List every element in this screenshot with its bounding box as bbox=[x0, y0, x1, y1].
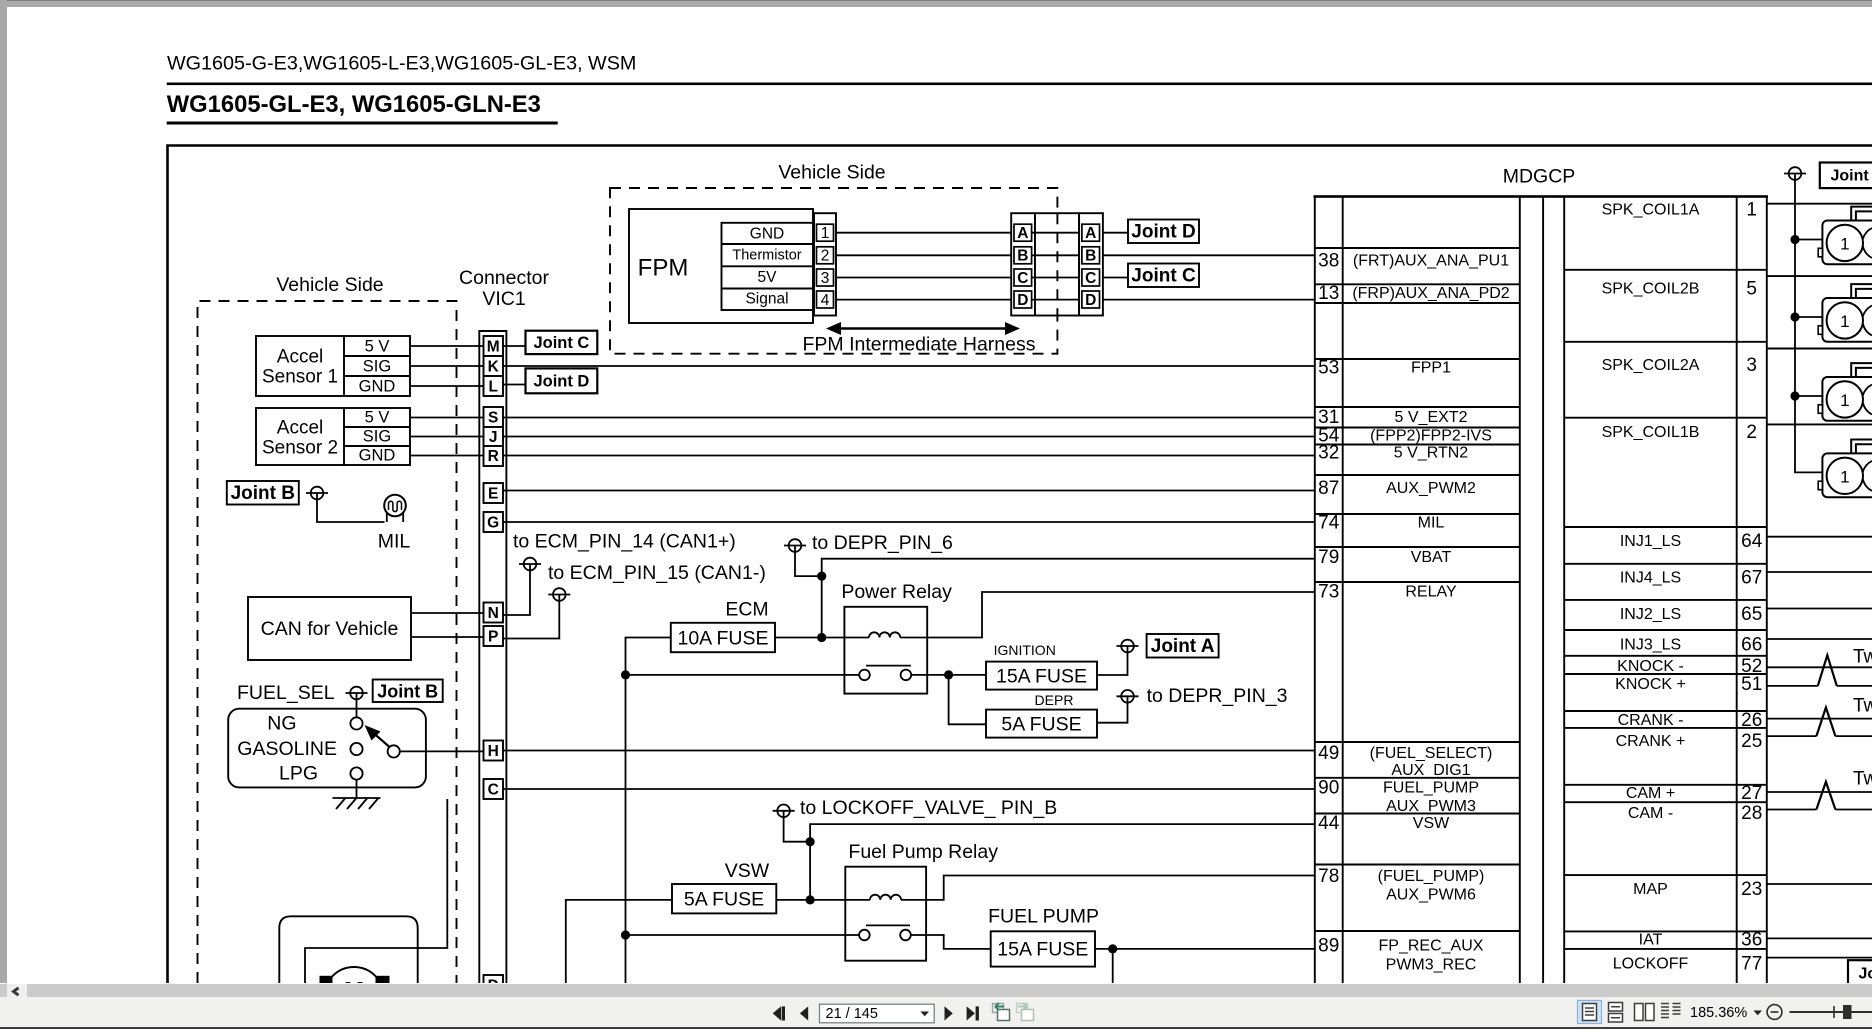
svg-text:Joint B: Joint B bbox=[231, 483, 295, 504]
coil signal names bbox=[1602, 202, 1700, 973]
svg-text:185.36%: 185.36% bbox=[1690, 1005, 1747, 1021]
svg-text:66: 66 bbox=[1741, 635, 1762, 656]
svg-text:LOCKOFF: LOCKOFF bbox=[1613, 956, 1689, 973]
svg-text:SPK_COIL1A: SPK_COIL1A bbox=[1602, 202, 1700, 219]
svg-text:FUEL_PUMP: FUEL_PUMP bbox=[1383, 780, 1479, 797]
wire split down to 5A fuse bbox=[949, 675, 986, 724]
wire to coil connector 1 bbox=[1795, 239, 1822, 241]
svg-text:15A FUSE: 15A FUSE bbox=[996, 666, 1087, 688]
svg-text:to DEPR_PIN_3: to DEPR_PIN_3 bbox=[1147, 685, 1288, 707]
svg-text:B: B bbox=[1085, 248, 1096, 265]
svg-text:Signal: Signal bbox=[745, 291, 788, 308]
VIC1 pin K bbox=[484, 356, 504, 376]
junction feed/fp relay common bbox=[621, 930, 630, 939]
wire LOCKOFF pin 77 bbox=[1767, 957, 1872, 959]
wire relay common from feed bbox=[626, 674, 845, 676]
svg-text:4: 4 bbox=[821, 292, 830, 309]
harness connector pin C (right) bbox=[1082, 269, 1100, 287]
wire FPM pin2 to connector B bbox=[836, 254, 1011, 256]
wire 15A fuse to Joint A bbox=[1097, 646, 1128, 675]
junction feed/common bbox=[621, 670, 630, 679]
svg-text:Vehicle Side: Vehicle Side bbox=[778, 162, 885, 184]
wire pin N to CAN1+ joint bbox=[503, 564, 530, 615]
FPM pin 1 bbox=[817, 224, 834, 242]
svg-text:Twisted: Twisted bbox=[1853, 769, 1872, 790]
fuse 5A VSW bbox=[672, 884, 776, 913]
svg-text:Joint D: Joint D bbox=[1131, 222, 1195, 243]
svg-text:Joint D: Joint D bbox=[533, 372, 589, 390]
svg-text:5A FUSE: 5A FUSE bbox=[684, 889, 764, 911]
svg-text:INJ3_LS: INJ3_LS bbox=[1620, 637, 1681, 654]
svg-text:M: M bbox=[487, 339, 500, 356]
Joint C label box (right) bbox=[1128, 264, 1199, 288]
svg-text:P: P bbox=[488, 629, 498, 646]
fuse 15A fuel pump bbox=[991, 931, 1095, 966]
svg-text:A: A bbox=[1085, 225, 1096, 242]
VIC1 pin C bbox=[484, 779, 504, 799]
svg-text:73: 73 bbox=[1318, 582, 1339, 603]
svg-text:A: A bbox=[1017, 225, 1028, 242]
wire DEPR_PIN_6 joint to VBAT branch bbox=[795, 546, 822, 577]
ECM connector table frame bbox=[1315, 196, 1520, 983]
wire C-C through mating bbox=[1032, 277, 1082, 279]
wire VBAT branch to ECM pin 79 bbox=[822, 559, 1315, 576]
wire pin M to Joint C bbox=[503, 345, 526, 347]
wire CRANK- pin 26 bbox=[1767, 718, 1872, 720]
harness connector pin C (left) bbox=[1014, 269, 1032, 287]
svg-text:(FUEL_PUMP): (FUEL_PUMP) bbox=[1378, 868, 1485, 885]
FPM pin 2 bbox=[817, 247, 834, 265]
svg-text:MAP: MAP bbox=[1633, 881, 1668, 898]
svg-text:CAM +: CAM + bbox=[1626, 785, 1675, 802]
FPM pin 3 bbox=[817, 269, 834, 287]
diagram frame border bbox=[168, 146, 1872, 984]
wire KNOCK+ pin 51 with twist hop bbox=[1767, 685, 1872, 687]
wire pin C to ECM pin 90 bbox=[503, 788, 1315, 790]
Joint A label box bbox=[1147, 634, 1219, 658]
fuel pump relay coil bbox=[845, 895, 926, 900]
MDGCP middle divider bbox=[1542, 196, 1544, 983]
svg-text:C: C bbox=[1085, 270, 1096, 287]
wire sensor2 5V to pin S bbox=[410, 417, 484, 419]
svg-text:VIC1: VIC1 bbox=[482, 288, 525, 310]
svg-text:Joint C: Joint C bbox=[1131, 266, 1196, 287]
svg-text:53: 53 bbox=[1318, 358, 1339, 379]
svg-text:PWM3_REC: PWM3_REC bbox=[1386, 957, 1477, 974]
wire sensor2 SIG to pin J bbox=[410, 436, 484, 438]
harness connector pin A (left) bbox=[1014, 224, 1032, 242]
wire FPM pin1 to connector A bbox=[836, 232, 1011, 234]
svg-text:FP_REC_AUX: FP_REC_AUX bbox=[1379, 938, 1484, 955]
svg-text:36: 36 bbox=[1741, 930, 1762, 951]
svg-text:67: 67 bbox=[1741, 568, 1762, 589]
VIC1 pin N bbox=[484, 603, 504, 623]
dashed boundary through mating connector bbox=[1056, 213, 1058, 315]
FPM box bbox=[629, 209, 813, 323]
wire common to pin H bbox=[400, 750, 484, 752]
wire joint to NG contact bbox=[356, 693, 358, 717]
svg-text:25: 25 bbox=[1741, 731, 1762, 752]
svg-text:(FUEL_SELECT): (FUEL_SELECT) bbox=[1370, 745, 1493, 762]
svg-text:44: 44 bbox=[1318, 813, 1340, 834]
svg-text:74: 74 bbox=[1318, 513, 1340, 534]
switch arm with arrow bbox=[365, 725, 390, 747]
wire sensor2 GND to pin R bbox=[410, 455, 484, 457]
junction on VSW fuse output bbox=[806, 895, 815, 904]
wire pin R to ECM pin 32 bbox=[503, 455, 1315, 457]
wire CAM- pin 28 with twist hop bbox=[1767, 809, 1872, 811]
svg-text:77: 77 bbox=[1741, 954, 1762, 975]
svg-text:SPK_COIL2A: SPK_COIL2A bbox=[1602, 357, 1700, 374]
joint symbol FUEL_SEL bbox=[346, 687, 368, 700]
wire feed to VSW fuse bbox=[566, 900, 672, 983]
wire fuel pump relay coil to ECM pin 78 bbox=[926, 876, 1315, 900]
svg-text:Sensor 2: Sensor 2 bbox=[262, 438, 338, 459]
svg-text:64: 64 bbox=[1741, 531, 1763, 552]
ECM signal names column bbox=[1352, 253, 1509, 974]
svg-text:FUEL PUMP: FUEL PUMP bbox=[988, 906, 1099, 928]
wire INJ2_LS pin 65 bbox=[1767, 608, 1872, 610]
wire fuel pump branch down bbox=[1112, 949, 1114, 983]
svg-text:CRANK -: CRANK - bbox=[1618, 712, 1684, 729]
svg-text:R: R bbox=[488, 448, 499, 465]
coil table row lines bbox=[1564, 270, 1767, 949]
svg-text:IGNITION: IGNITION bbox=[994, 642, 1056, 658]
twisted pair symbol KNOCK bbox=[1818, 655, 1837, 686]
FPM pin strip bbox=[814, 213, 836, 315]
svg-text:15A FUSE: 15A FUSE bbox=[997, 939, 1088, 961]
joint symbol CAN1+ bbox=[519, 558, 541, 571]
junction coil3 bbox=[1790, 391, 1799, 400]
svg-text:LPG: LPG bbox=[279, 763, 318, 785]
svg-text:1: 1 bbox=[1840, 467, 1849, 486]
svg-text:5 V: 5 V bbox=[365, 409, 390, 427]
wire FPM pin3 to connector C bbox=[836, 277, 1011, 279]
svg-text:E: E bbox=[488, 486, 498, 503]
harness connector pin B (right) bbox=[1082, 247, 1100, 265]
svg-text:AUX_PWM3: AUX_PWM3 bbox=[1386, 798, 1476, 815]
svg-text:5A FUSE: 5A FUSE bbox=[1001, 714, 1081, 736]
svg-text:5 V_RTN2: 5 V_RTN2 bbox=[1394, 444, 1469, 461]
wire LOCKOFF joint to branch bbox=[784, 811, 811, 842]
svg-text:13: 13 bbox=[1318, 283, 1339, 304]
junction coil1 bbox=[1790, 235, 1799, 244]
svg-text:SIG: SIG bbox=[363, 428, 391, 446]
FPM vehicle side dashed boundary bbox=[610, 188, 1057, 354]
left Vehicle Side dashed boundary bbox=[198, 301, 457, 983]
svg-text:Twisted: Twisted bbox=[1853, 647, 1872, 668]
wire pin K to ECM pin 53 FPP1 bbox=[503, 365, 1315, 367]
svg-text:27: 27 bbox=[1741, 783, 1762, 804]
svg-text:SIG: SIG bbox=[363, 358, 391, 376]
Joint A distribution wire bbox=[1795, 174, 1822, 473]
joint symbol MIL bbox=[306, 487, 328, 500]
Joint D label box (right) bbox=[1128, 220, 1199, 244]
svg-text:FPP1: FPP1 bbox=[1411, 360, 1451, 377]
svg-text:MIL: MIL bbox=[1418, 515, 1445, 532]
wire 10A fuse to power relay coil bbox=[775, 637, 844, 639]
junction LOCKOFF branch bbox=[806, 837, 815, 846]
CAN for Vehicle box bbox=[248, 597, 411, 660]
svg-text:51: 51 bbox=[1741, 674, 1762, 695]
svg-text:3: 3 bbox=[821, 270, 830, 287]
wire pin G to ECM pin 74 MIL bbox=[503, 521, 1315, 523]
harness connector pin A (right) bbox=[1082, 224, 1100, 242]
title underline bbox=[167, 122, 558, 125]
wire fuel pump fuse to ECM pin 89 bbox=[1095, 948, 1315, 950]
svg-text:(FPP2)FPP2-IVS: (FPP2)FPP2-IVS bbox=[1370, 427, 1492, 444]
svg-text:87: 87 bbox=[1318, 478, 1339, 499]
ECM pin numbers column bbox=[1318, 251, 1340, 957]
wire CAM+ pin 27 bbox=[1767, 791, 1872, 793]
accel sensor 1 bbox=[256, 336, 410, 396]
svg-text:AUX_DIG1: AUX_DIG1 bbox=[1391, 762, 1470, 779]
svg-text:89: 89 bbox=[1318, 936, 1339, 957]
joint symbol Joint A (top right) bbox=[1784, 167, 1806, 180]
power relay contacts bbox=[844, 666, 927, 681]
wire MAP pin 23 bbox=[1767, 883, 1872, 885]
harness connector pin B (left) bbox=[1014, 247, 1032, 265]
svg-text:J: J bbox=[489, 429, 498, 446]
svg-text:INJ2_LS: INJ2_LS bbox=[1620, 606, 1681, 623]
wire CRANK+ pin 25 with twist hop bbox=[1767, 735, 1872, 737]
Joint B label box (MIL) bbox=[227, 481, 299, 505]
svg-text:2: 2 bbox=[821, 248, 830, 265]
svg-text:KNOCK -: KNOCK - bbox=[1617, 658, 1684, 675]
svg-text:79: 79 bbox=[1318, 547, 1339, 568]
svg-text:Sensor 1: Sensor 1 bbox=[262, 367, 338, 388]
svg-text:5 V_EXT2: 5 V_EXT2 bbox=[1395, 409, 1468, 426]
spark coil connector 2 bbox=[1818, 284, 1872, 342]
svg-text:2: 2 bbox=[1746, 422, 1757, 443]
junction VBAT branch bbox=[817, 572, 826, 581]
svg-text:Vehicle Side: Vehicle Side bbox=[276, 274, 383, 296]
svg-text:90: 90 bbox=[1318, 778, 1339, 799]
svg-text:Thermistor: Thermistor bbox=[732, 248, 801, 264]
svg-text:CAN for Vehicle: CAN for Vehicle bbox=[261, 618, 399, 640]
svg-text:to LOCKOFF_VALVE_ PIN_B: to LOCKOFF_VALVE_ PIN_B bbox=[800, 797, 1057, 819]
svg-text:IAT: IAT bbox=[1639, 932, 1663, 949]
power relay coil bbox=[844, 632, 927, 637]
svg-text:Accel: Accel bbox=[277, 418, 323, 439]
fuel changeover unit rounded box bbox=[279, 916, 417, 983]
wire connector C to Joint C bbox=[1103, 277, 1128, 279]
joint symbol Joint A bbox=[1117, 640, 1139, 653]
svg-text:WG1605-GL-E3, WG1605-GLN-E3: WG1605-GL-E3, WG1605-GLN-E3 bbox=[167, 91, 541, 118]
junction on coil wire bbox=[817, 633, 826, 642]
VIC1 pin R bbox=[484, 446, 504, 466]
Joint D label box (left) bbox=[526, 368, 598, 393]
svg-text:MIL: MIL bbox=[378, 531, 411, 553]
wire INJ1_LS pin 64 bbox=[1767, 536, 1872, 538]
svg-text:VSW: VSW bbox=[725, 860, 770, 882]
svg-text:49: 49 bbox=[1318, 743, 1339, 764]
svg-text:Twisted: Twisted bbox=[1853, 696, 1872, 717]
svg-text:65: 65 bbox=[1741, 604, 1762, 625]
wire INJ4_LS pin 67 bbox=[1767, 571, 1872, 573]
VIC1 pin L bbox=[484, 376, 504, 396]
svg-text:Joint B: Joint B bbox=[1859, 966, 1872, 983]
svg-text:N: N bbox=[488, 605, 499, 622]
svg-text:Power Relay: Power Relay bbox=[841, 581, 952, 603]
VIC1 pin J bbox=[484, 427, 504, 446]
wire to coil connector 2 bbox=[1795, 316, 1822, 318]
Joint A label box (top right, cut) bbox=[1820, 163, 1872, 189]
svg-text:GND: GND bbox=[359, 447, 396, 465]
svg-text:RELAY: RELAY bbox=[1405, 584, 1457, 601]
fuse 5A DEPR bbox=[986, 710, 1097, 738]
svg-text:S: S bbox=[488, 410, 498, 427]
svg-text:5 V: 5 V bbox=[365, 338, 390, 356]
svg-text:23: 23 bbox=[1741, 879, 1762, 900]
wire KNOCK- pin 52 bbox=[1767, 666, 1872, 668]
fuel pump relay contacts bbox=[845, 925, 926, 940]
svg-text:CRANK +: CRANK + bbox=[1616, 733, 1686, 750]
svg-text:AUX_PWM6: AUX_PWM6 bbox=[1386, 887, 1476, 904]
wire pin P to CAN1- joint bbox=[503, 595, 559, 639]
junction coil2 bbox=[1790, 312, 1799, 321]
svg-text:FUEL_SEL: FUEL_SEL bbox=[237, 682, 335, 704]
wire branch to ECM pin 44 VSW bbox=[810, 824, 1315, 842]
wire feed to 10A fuse bbox=[626, 638, 671, 984]
svg-text:1: 1 bbox=[1840, 391, 1849, 410]
svg-text:H: H bbox=[488, 743, 499, 760]
svg-text:26: 26 bbox=[1741, 710, 1762, 731]
accel sensor 2 bbox=[256, 408, 410, 465]
svg-text:WG1605-G-E3,WG1605-L-E3,WG1605: WG1605-G-E3,WG1605-L-E3,WG1605-GL-E3, WS… bbox=[167, 53, 636, 75]
svg-text:GND: GND bbox=[359, 378, 396, 396]
joint symbol CAN1- bbox=[548, 588, 570, 601]
wire pin J to ECM pin 54 bbox=[503, 436, 1315, 438]
ECM table row lines bbox=[1315, 248, 1520, 931]
svg-text:(FRP)AUX_ANA_PD2: (FRP)AUX_ANA_PD2 bbox=[1352, 285, 1509, 302]
svg-text:FPM Intermediate Harness: FPM Intermediate Harness bbox=[802, 334, 1035, 356]
wire to coil connector 3 bbox=[1795, 395, 1822, 397]
svg-text:KNOCK +: KNOCK + bbox=[1615, 676, 1686, 693]
vehicle connector frame stub lines bbox=[1767, 204, 1872, 425]
fuse 15A ignition bbox=[986, 662, 1097, 690]
svg-text:INJ4_LS: INJ4_LS bbox=[1620, 570, 1681, 587]
svg-text:B: B bbox=[1017, 248, 1028, 265]
wire CAN to pin N bbox=[411, 612, 484, 614]
wire pin E to ECM pin 87 bbox=[503, 490, 1315, 492]
svg-text:Joint A: Joint A bbox=[1151, 636, 1215, 657]
FPM intermediate harness span arrow bbox=[826, 322, 1020, 335]
VIC1 pin G bbox=[484, 512, 504, 532]
wire pin L to Joint D bbox=[503, 384, 526, 386]
coil pin numbers bbox=[1741, 200, 1763, 975]
joint symbol to DEPR_PIN_6 bbox=[784, 539, 806, 552]
svg-text:10A FUSE: 10A FUSE bbox=[677, 628, 768, 650]
fuel pump relay box bbox=[845, 867, 926, 961]
svg-text:(FRT)AUX_ANA_PU1: (FRT)AUX_ANA_PU1 bbox=[1353, 253, 1509, 270]
svg-text:38: 38 bbox=[1318, 251, 1339, 272]
svg-text:L: L bbox=[488, 379, 497, 396]
wire FPM pin4 to connector D bbox=[836, 299, 1011, 301]
wire pin S to ECM pin 31 bbox=[503, 417, 1315, 419]
svg-text:Fuel Pump Relay: Fuel Pump Relay bbox=[848, 841, 998, 863]
VIC1 pin E bbox=[484, 483, 504, 503]
wire power relay coil to ECM pin 73 RELAY bbox=[927, 592, 1315, 638]
VIC1 pin S bbox=[484, 407, 504, 427]
VIC1 pin D (cut at bottom) bbox=[484, 975, 504, 995]
twisted pair symbol CAM bbox=[1816, 782, 1835, 810]
svg-text:32: 32 bbox=[1318, 442, 1339, 463]
wire IAT pin 36 bbox=[1767, 937, 1872, 939]
wire branch down to fuel pump relay coil wire bbox=[809, 842, 811, 900]
svg-text:Accel: Accel bbox=[277, 347, 323, 368]
mating connector middle body bbox=[1035, 213, 1079, 315]
FPM intermediate harness connector, left half ABCD bbox=[1011, 213, 1035, 315]
harness connector pin D (right) bbox=[1082, 291, 1100, 309]
wire sensor1 GND to pin L bbox=[410, 385, 484, 387]
svg-text:1: 1 bbox=[821, 225, 830, 242]
wire fp relay output to 15A fuse bbox=[926, 935, 991, 949]
VIC1 pin M bbox=[484, 336, 504, 356]
wire sensor1 5V to pin M bbox=[410, 345, 484, 347]
svg-text:D: D bbox=[1017, 292, 1028, 309]
svg-text:NG: NG bbox=[267, 712, 296, 734]
ground symbol bbox=[333, 798, 381, 809]
svg-text:G: G bbox=[487, 515, 499, 532]
VIC1 pin H bbox=[484, 741, 504, 761]
svg-text:ECM: ECM bbox=[725, 599, 768, 621]
MIL lamp bbox=[384, 495, 406, 522]
wire pin H to ECM pin 49 bbox=[503, 750, 1315, 752]
svg-text:VSW: VSW bbox=[1413, 815, 1450, 832]
FPM pin 4 bbox=[817, 291, 834, 309]
wire joint B down to MIL lamp wire bbox=[317, 493, 385, 522]
svg-text:VBAT: VBAT bbox=[1411, 549, 1452, 566]
connector VIC1 body bbox=[479, 331, 506, 983]
svg-text:21 / 145: 21 / 145 bbox=[826, 1006, 878, 1022]
svg-text:to ECM_PIN_14 (CAN1+): to ECM_PIN_14 (CAN1+) bbox=[513, 531, 736, 553]
wire B-B through mating bbox=[1032, 254, 1082, 256]
svg-text:1: 1 bbox=[1746, 200, 1757, 221]
junction fuel pump branch bbox=[1108, 944, 1117, 953]
svg-text:SPK_COIL1B: SPK_COIL1B bbox=[1602, 424, 1700, 441]
svg-text:GASOLINE: GASOLINE bbox=[237, 738, 337, 760]
fuel select switch body bbox=[228, 709, 426, 788]
wire pin C down to changeover motor bbox=[305, 799, 447, 983]
junction fuse split bbox=[944, 670, 953, 679]
joint symbol to DEPR_PIN_3 bbox=[1117, 690, 1139, 703]
svg-text:CAM -: CAM - bbox=[1628, 805, 1673, 822]
spark coil connector 1 bbox=[1818, 207, 1872, 265]
svg-text:Joint C: Joint C bbox=[533, 334, 589, 352]
svg-text:INJ1_LS: INJ1_LS bbox=[1620, 533, 1681, 550]
Joint B label box (FUEL_SEL) bbox=[373, 680, 443, 703]
svg-text:to ECM_PIN_15 (CAN1-): to ECM_PIN_15 (CAN1-) bbox=[548, 562, 766, 584]
wire connector D to ECM pin 13 bbox=[1103, 299, 1315, 301]
svg-text:Joint A: Joint A bbox=[1831, 168, 1872, 185]
svg-text:SPK_COIL2B: SPK_COIL2B bbox=[1602, 281, 1700, 298]
harness connector pin D (left) bbox=[1014, 291, 1032, 309]
MDGCP top border bbox=[1314, 195, 1769, 198]
svg-text:3: 3 bbox=[1746, 355, 1757, 376]
switch common contact bbox=[388, 745, 400, 757]
Joint C label box (left) bbox=[526, 331, 598, 354]
wire relay output to fuses bbox=[927, 674, 986, 676]
svg-text:5: 5 bbox=[1746, 279, 1757, 300]
svg-text:MDGCP: MDGCP bbox=[1503, 166, 1576, 188]
FPM intermediate harness connector, right half ABCD bbox=[1079, 213, 1103, 315]
svg-text:GND: GND bbox=[750, 226, 784, 243]
svg-text:78: 78 bbox=[1318, 866, 1339, 887]
svg-text:Connector: Connector bbox=[459, 267, 549, 289]
FPM signal table bbox=[722, 223, 814, 310]
VIC1 pin P bbox=[484, 626, 504, 646]
